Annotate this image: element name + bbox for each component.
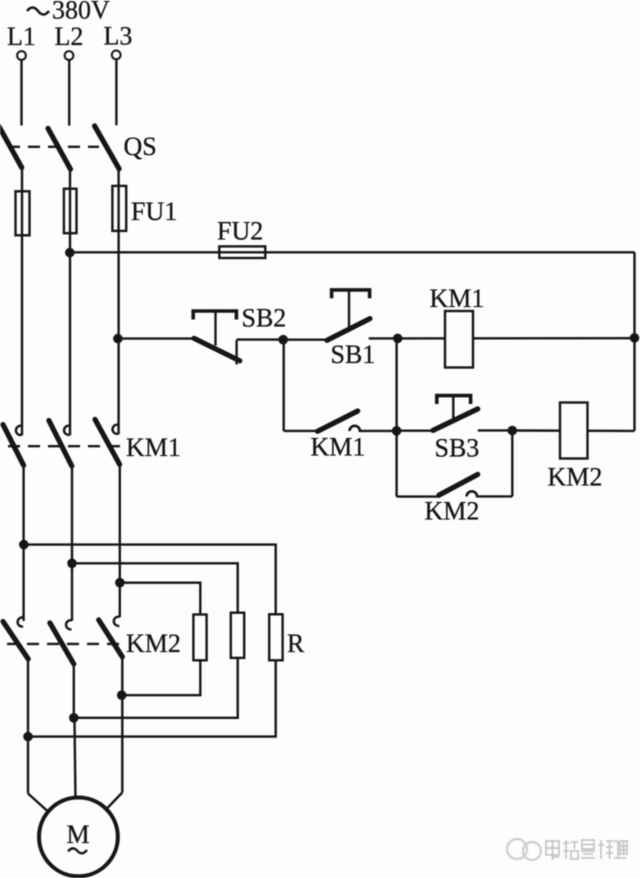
svg-text:SB2: SB2 <box>242 304 287 333</box>
svg-text:QS: QS <box>124 132 157 161</box>
svg-text:KM1: KM1 <box>126 433 181 462</box>
svg-text:R: R <box>287 629 305 658</box>
svg-text:L2: L2 <box>55 22 84 51</box>
svg-text:KM1: KM1 <box>430 284 485 313</box>
svg-text:KM1: KM1 <box>311 433 366 462</box>
svg-text:KM2: KM2 <box>425 497 480 526</box>
svg-text:KM2: KM2 <box>126 629 181 658</box>
svg-text:L3: L3 <box>104 22 133 51</box>
svg-text:FU1: FU1 <box>131 197 177 226</box>
svg-text:M: M <box>67 820 90 849</box>
svg-text:SB1: SB1 <box>331 340 376 369</box>
svg-text:KM2: KM2 <box>548 463 603 492</box>
svg-text:380V: 380V <box>52 0 110 25</box>
svg-text:L1: L1 <box>7 22 36 51</box>
svg-text:SB3: SB3 <box>435 434 480 463</box>
svg-text:FU2: FU2 <box>217 217 263 246</box>
